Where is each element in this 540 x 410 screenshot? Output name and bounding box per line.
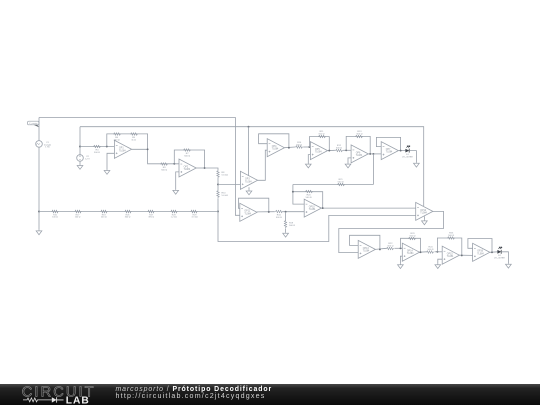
svg-text:OP10: OP10	[309, 207, 316, 209]
svg-text:1.2 kΩ: 1.2 kΩ	[171, 217, 178, 219]
wire OP4 feedback	[259, 134, 289, 148]
op-amp OP2	[179, 159, 196, 177]
wire OP10 output bus	[321, 207, 415, 209]
op-amp OP4	[267, 139, 284, 157]
resistor R12	[335, 149, 343, 152]
svg-text:TL084: TL084	[272, 149, 279, 151]
svg-text:500 Ω: 500 Ω	[319, 134, 325, 136]
wire OP16 output to LED	[490, 251, 498, 254]
svg-text:TL084: TL084	[420, 212, 427, 214]
resistor R5	[130, 133, 138, 136]
svg-text:OP12: OP12	[420, 210, 427, 212]
wire V2 to ground	[79, 161, 81, 164]
wire OP13 output	[375, 248, 386, 249]
resistor R16	[275, 210, 283, 213]
wire OP14 feedback loop	[401, 238, 421, 252]
resistor R21	[337, 183, 345, 186]
svg-text:TL084: TL084	[315, 152, 322, 154]
ground OP3 V-	[248, 187, 250, 190]
svg-text:TL084: TL084	[386, 152, 393, 154]
wire R19 to ground	[285, 228, 287, 232]
resistor R7	[183, 149, 191, 152]
svg-text:TL084: TL084	[119, 150, 126, 152]
svg-text:OP1: OP1	[119, 148, 124, 150]
svg-text:300 Ω: 300 Ω	[125, 217, 131, 219]
resistor R8	[217, 170, 220, 178]
svg-text:500 Ω: 500 Ω	[338, 182, 344, 184]
resistor R13	[355, 135, 363, 138]
wire OP12 V- stub	[423, 216, 425, 220]
op-amp OP16	[473, 243, 490, 261]
wire OP3 output up to OP4	[258, 150, 268, 180]
wire rail2 to OP3 V+	[248, 127, 250, 176]
svg-text:390 Ω: 390 Ω	[148, 217, 154, 219]
svg-text:100 Ω: 100 Ω	[75, 217, 81, 219]
wire node to OP3 plus	[218, 183, 240, 185]
wire V1 to ladder	[38, 147, 40, 211]
op-amp OP15	[442, 246, 459, 264]
ground D1	[414, 162, 420, 167]
resistor R18	[100, 210, 107, 213]
svg-text:500 Ω: 500 Ω	[94, 152, 100, 154]
svg-text:OP15: OP15	[447, 254, 454, 256]
op-amp OP6	[351, 145, 368, 163]
wire OP7 feedback	[376, 137, 400, 150]
svg-text:LTL-307EE: LTL-307EE	[402, 156, 413, 158]
op-amp OP12	[416, 202, 433, 220]
wire OP10 feedback loop	[293, 192, 323, 208]
ground OP1	[104, 169, 110, 174]
op-amp OP5	[310, 142, 327, 160]
resistor R11	[318, 135, 326, 138]
resistor R27	[147, 210, 154, 213]
wire OP6 output to OP7	[368, 153, 381, 155]
wire R12 to OP6	[343, 149, 351, 151]
svg-text:OP13: OP13	[363, 248, 370, 250]
svg-text:3.3 kΩ: 3.3 kΩ	[191, 217, 198, 219]
wire OP6 plus to ground	[348, 158, 351, 163]
wire OP5 plus to ground	[308, 155, 310, 163]
svg-text:TL084: TL084	[309, 209, 316, 211]
ground D2	[506, 263, 512, 268]
svg-text:5.6 kΩ: 5.6 kΩ	[222, 195, 229, 197]
svg-text:500 Ω: 500 Ω	[306, 197, 312, 199]
ground ladder left	[36, 230, 42, 235]
wire OP7 output to LED	[398, 150, 405, 152]
resistor R14	[295, 146, 303, 149]
op-amp OP10	[304, 199, 321, 217]
wire LED D2 to ground	[502, 252, 509, 263]
op-amp OP7	[381, 142, 398, 160]
svg-text:500 Ω: 500 Ω	[276, 217, 282, 219]
resistor R17	[74, 210, 81, 213]
svg-text:OP4: OP4	[272, 146, 277, 148]
resistor R19	[284, 220, 287, 228]
resistor R23	[408, 237, 416, 240]
wire rail2 supply	[80, 127, 424, 206]
svg-text:TL084: TL084	[477, 253, 484, 255]
svg-text:TL084: TL084	[245, 181, 252, 183]
svg-text:500 Ω: 500 Ω	[289, 225, 295, 227]
wire rail1 carrier	[39, 118, 240, 216]
svg-text:100 Ω: 100 Ω	[52, 217, 58, 219]
svg-text:LAB: LAB	[66, 396, 90, 405]
resistor R9	[160, 163, 168, 166]
svg-text:TL084: TL084	[447, 256, 454, 258]
svg-text:OP2: OP2	[184, 166, 189, 168]
LED D1	[405, 149, 409, 153]
svg-text:5.6 kΩ: 5.6 kΩ	[222, 175, 229, 177]
op-amp OP11	[240, 203, 257, 221]
svg-text:OP16: OP16	[477, 251, 484, 253]
svg-text:OP5: OP5	[315, 149, 320, 151]
wire OP2 feedback loop	[174, 150, 204, 167]
wire ladder stub down	[38, 212, 40, 230]
wire OP4 output	[284, 146, 295, 149]
ground OP6	[345, 163, 351, 168]
wire R14 to OP5	[303, 146, 310, 148]
wire OP2 output	[196, 167, 204, 169]
svg-text:500 Ω: 500 Ω	[387, 245, 393, 247]
svg-text:OP14: OP14	[407, 251, 414, 253]
svg-text:500 Ω: 500 Ω	[428, 249, 434, 251]
resistor R22	[386, 247, 394, 250]
wire OP5 feedback loop	[309, 137, 329, 151]
wire R19 branch	[285, 212, 287, 221]
wire R22 to OP14	[394, 247, 402, 249]
svg-text:LTL-307EE: LTL-307EE	[494, 258, 505, 260]
svg-text:TL084: TL084	[407, 253, 414, 255]
wire R21 down to OP10 fb	[292, 185, 294, 192]
wire OP13 feedback	[350, 235, 380, 249]
wire OP11 feedback	[239, 198, 269, 212]
wire OP14 plus to ground	[400, 256, 402, 263]
wire R10 to ladder	[217, 198, 219, 211]
svg-text:500 Ω: 500 Ω	[161, 169, 167, 171]
wire OP1 output down	[132, 149, 179, 164]
wire LED D1 to ground	[410, 151, 417, 163]
wire ladder to lower bus	[218, 212, 416, 242]
ground OP12	[422, 220, 428, 225]
wire OP15 feedback loop	[437, 238, 461, 255]
resistor R4	[93, 145, 101, 148]
wire R24 to OP15	[435, 251, 443, 253]
logo resistor-diode glyph	[23, 398, 52, 402]
resistor R15	[51, 210, 58, 213]
op-amp OP14	[402, 243, 419, 261]
wire OP14 output	[420, 251, 427, 253]
op-amp OP3	[240, 171, 257, 189]
resistor R26	[124, 210, 131, 213]
wire OP6 feedback loop	[346, 136, 370, 154]
wire OP15 plus to ground	[438, 259, 442, 263]
ground OP5	[305, 163, 311, 168]
wire OP5 output	[328, 149, 335, 151]
voltage source V2	[77, 155, 84, 162]
ground OP2	[173, 189, 179, 194]
ground OP15	[435, 264, 441, 269]
wire input to OP1	[80, 146, 114, 148]
svg-text:200 Ω: 200 Ω	[101, 217, 107, 219]
svg-text:1 Hz: 1 Hz	[45, 147, 50, 149]
svg-text:500 Ω: 500 Ω	[336, 147, 342, 149]
svg-text:OP7: OP7	[386, 149, 391, 151]
resistor R28	[170, 210, 177, 213]
wire R21 net	[293, 184, 374, 186]
ground OP14	[398, 264, 404, 269]
voltage source V1	[36, 141, 43, 148]
svg-text:TL084: TL084	[356, 155, 363, 157]
resistor R20	[305, 190, 313, 193]
resistor R10	[217, 190, 220, 198]
wire OP2 out to divider	[205, 168, 218, 170]
svg-text:TL084: TL084	[184, 169, 191, 171]
op-amp OP13	[358, 240, 375, 258]
svg-text:TL084: TL084	[244, 213, 251, 215]
wire OP15 output to OP16	[459, 254, 472, 256]
svg-text:12 V: 12 V	[85, 159, 90, 161]
svg-text:http://circuitlab.com/c2jt4cyq: http://circuitlab.com/c2jt4cyqdgxes	[116, 392, 266, 400]
ground R19	[283, 232, 289, 237]
wire resistor ladder	[39, 211, 218, 213]
LED D2	[497, 250, 501, 254]
resistor R6	[113, 133, 121, 136]
svg-text:240 Ω: 240 Ω	[114, 139, 120, 141]
wire OP12 output wrap	[339, 211, 444, 252]
wire OP1 plus to ground	[107, 153, 114, 169]
resistor R24	[426, 251, 434, 254]
op-amp OP1	[114, 140, 131, 158]
resistor R29	[190, 210, 197, 213]
wire V2 branch	[79, 127, 81, 155]
wire OP6 out down to R21	[372, 154, 374, 185]
wire V1 branch	[38, 118, 40, 141]
wire R16 to OP10 plus	[283, 211, 304, 213]
wire OP16 feedback	[468, 239, 492, 253]
svg-text:500 Ω: 500 Ω	[410, 235, 416, 237]
svg-text:500 Ω: 500 Ω	[184, 155, 190, 157]
wire OP11 output	[257, 211, 275, 213]
svg-text:OP6: OP6	[356, 152, 361, 154]
svg-text:500 Ω: 500 Ω	[356, 133, 362, 135]
svg-text:OP11: OP11	[244, 211, 250, 213]
ground V2	[77, 164, 83, 169]
svg-text:500 Ω: 500 Ω	[296, 145, 302, 147]
wire OP1 feedback loop	[107, 134, 148, 149]
wire OP2 plus to ground	[176, 172, 179, 189]
wire divider node	[217, 178, 219, 190]
node flag C_carrier	[28, 121, 40, 127]
resistor R25	[447, 237, 455, 240]
svg-text:1k Ω: 1k Ω	[131, 139, 136, 141]
svg-text:500 Ω: 500 Ω	[448, 235, 454, 237]
svg-text:TL084: TL084	[363, 250, 370, 252]
svg-text:OP3: OP3	[245, 179, 250, 181]
